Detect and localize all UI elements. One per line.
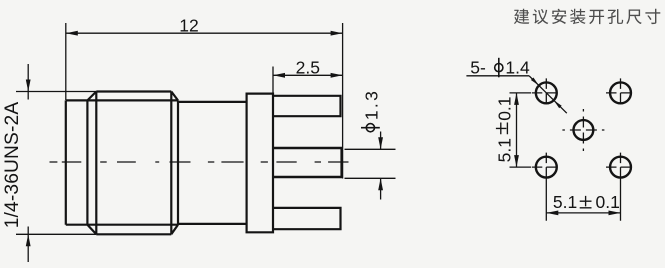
svg-text:1.3: 1.3 bbox=[362, 89, 382, 120]
svg-text:1/4-36UNS-2A: 1/4-36UNS-2A bbox=[2, 102, 23, 229]
svg-text:1.4: 1.4 bbox=[505, 57, 530, 77]
svg-text:0.1: 0.1 bbox=[596, 192, 620, 212]
svg-text:12: 12 bbox=[179, 16, 198, 36]
svg-text:2.5: 2.5 bbox=[296, 57, 320, 77]
svg-text:5.1: 5.1 bbox=[494, 138, 514, 162]
svg-text:5.1: 5.1 bbox=[553, 192, 577, 212]
svg-text:0.1: 0.1 bbox=[494, 96, 514, 120]
svg-text:5-: 5- bbox=[470, 57, 486, 77]
